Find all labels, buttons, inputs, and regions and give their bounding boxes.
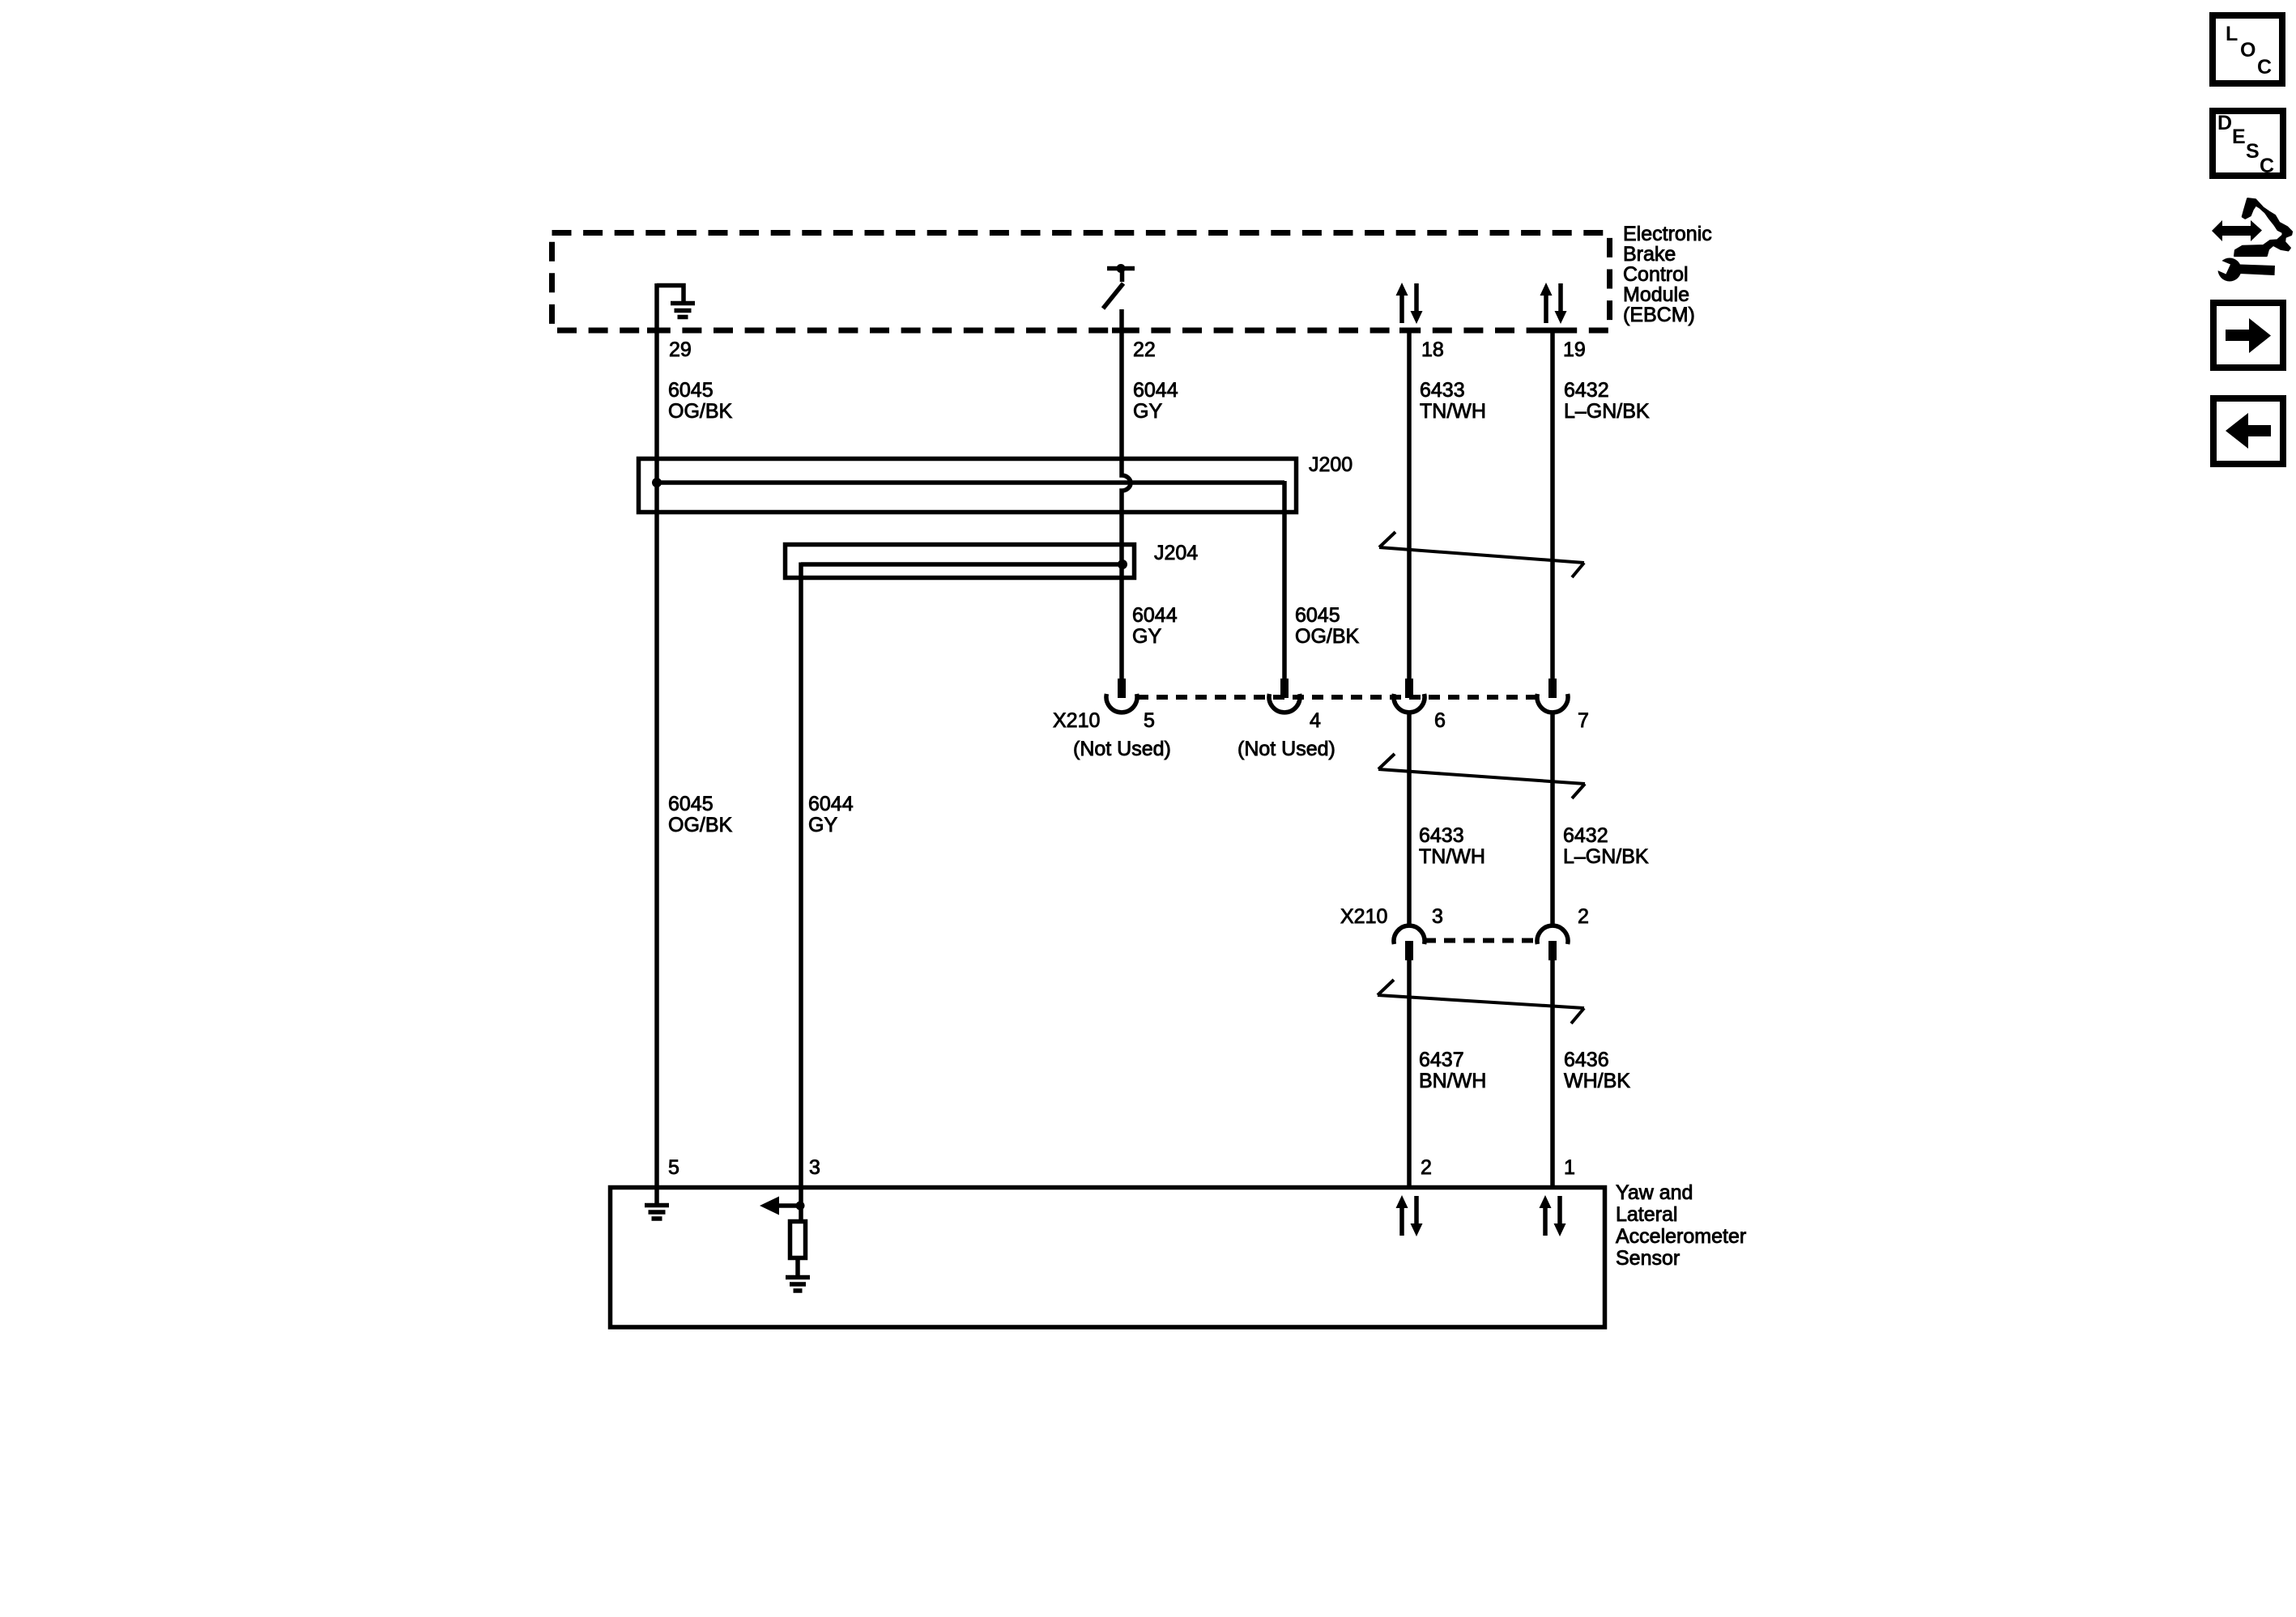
svg-text:6436: 6436 [1564,1049,1609,1071]
svg-text:(Not Used): (Not Used) [1073,738,1171,760]
svg-text:Brake: Brake [1623,243,1676,266]
svg-text:29: 29 [669,338,692,361]
svg-text:18: 18 [1421,338,1444,361]
svg-text:C: C [2260,155,2274,177]
svg-text:(Not Used): (Not Used) [1237,738,1335,760]
svg-text:GY: GY [808,814,837,836]
svg-text:OG/BK: OG/BK [668,814,733,836]
svg-text:(EBCM): (EBCM) [1623,304,1695,326]
svg-text:Lateral: Lateral [1616,1203,1677,1226]
svg-text:TN/WH: TN/WH [1419,845,1485,868]
svg-text:6044: 6044 [808,793,854,815]
svg-text:6432: 6432 [1564,379,1609,402]
svg-text:Module: Module [1623,283,1689,306]
svg-text:X210: X210 [1340,905,1387,928]
svg-text:J200: J200 [1309,453,1352,476]
svg-text:S: S [2246,140,2260,163]
svg-text:3: 3 [1432,905,1443,928]
svg-text:J204: J204 [1154,542,1198,564]
svg-text:WH/BK: WH/BK [1564,1070,1630,1092]
svg-text:22: 22 [1133,338,1156,361]
svg-text:D: D [2217,112,2232,134]
svg-text:Accelerometer: Accelerometer [1616,1225,1746,1248]
svg-text:OG/BK: OG/BK [668,400,733,423]
svg-text:BN/WH: BN/WH [1419,1070,1486,1092]
svg-text:4: 4 [1310,709,1321,732]
svg-text:6045: 6045 [668,793,714,815]
svg-text:L–GN/BK: L–GN/BK [1564,400,1650,423]
svg-text:6044: 6044 [1132,604,1178,627]
svg-text:6045: 6045 [668,379,714,402]
svg-text:19: 19 [1563,338,1586,361]
svg-text:7: 7 [1578,709,1589,732]
svg-text:GY: GY [1132,625,1161,648]
svg-text:Electronic: Electronic [1623,223,1712,245]
svg-text:E: E [2232,126,2246,148]
svg-text:3: 3 [809,1156,820,1179]
svg-text:1: 1 [1564,1156,1575,1179]
svg-text:O: O [2240,39,2256,62]
svg-text:TN/WH: TN/WH [1420,400,1486,423]
svg-text:C: C [2257,56,2272,79]
svg-text:L: L [2226,23,2238,45]
svg-text:2: 2 [1578,905,1589,928]
svg-text:X210: X210 [1053,709,1100,732]
svg-text:Sensor: Sensor [1616,1247,1680,1270]
svg-text:Yaw and: Yaw and [1616,1181,1693,1204]
svg-text:L–GN/BK: L–GN/BK [1563,845,1649,868]
svg-text:Control: Control [1623,263,1689,286]
svg-text:6045: 6045 [1295,604,1340,627]
svg-text:6433: 6433 [1419,824,1464,847]
svg-text:5: 5 [1144,709,1155,732]
svg-text:6437: 6437 [1419,1049,1464,1071]
svg-text:6044: 6044 [1133,379,1178,402]
svg-text:6432: 6432 [1563,824,1608,847]
svg-text:2: 2 [1421,1156,1432,1179]
svg-text:5: 5 [668,1156,679,1179]
svg-text:6: 6 [1434,709,1446,732]
svg-text:6433: 6433 [1420,379,1465,402]
svg-text:GY: GY [1133,400,1162,423]
svg-text:OG/BK: OG/BK [1295,625,1360,648]
